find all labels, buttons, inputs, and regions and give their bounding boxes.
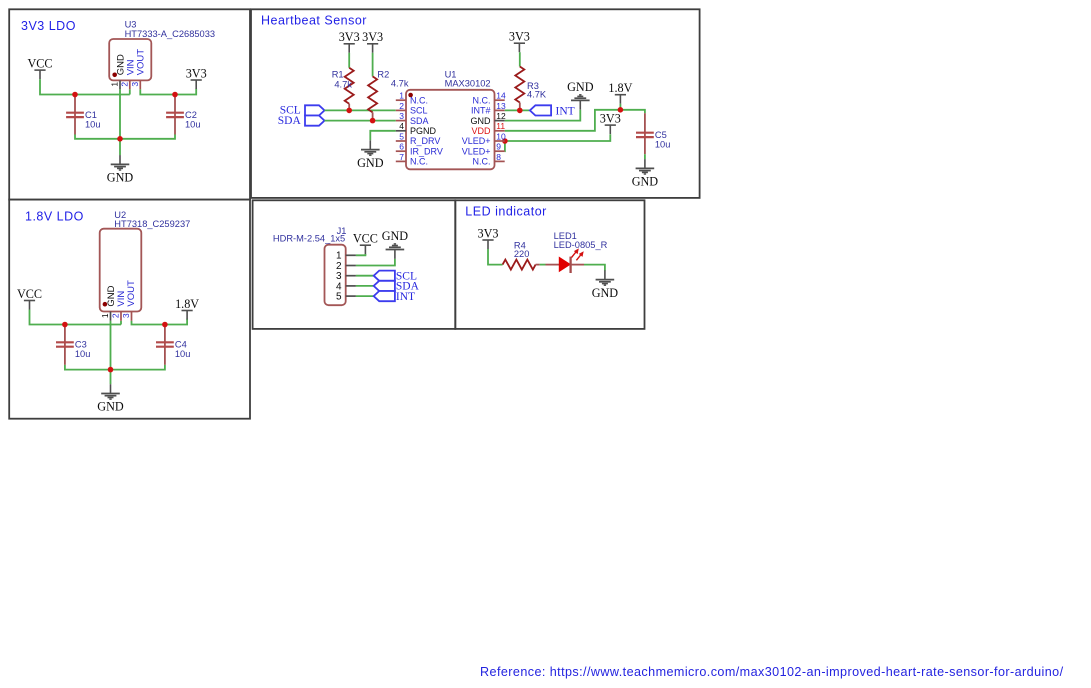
power flag 1.8V (heartbeat) [608,81,632,104]
svg-text:1.8V LDO: 1.8V LDO [25,209,84,223]
svg-text:1: 1 [399,91,404,101]
power flag VCC (3V3 LDO) [27,57,52,80]
junction R2/SDA [370,118,376,124]
sheet box LED indicator [455,200,644,329]
svg-text:10u: 10u [75,349,91,359]
svg-text:3V3: 3V3 [186,66,207,80]
svg-text:Reference: https://www.teachme: Reference: https://www.teachmemicro.com/… [480,665,1064,679]
svg-text:4: 4 [399,121,404,131]
svg-text:VCC: VCC [27,57,52,71]
svg-text:SDA: SDA [278,115,302,127]
wire VOUT to 3V3 bus [140,89,196,95]
IC U1 MAX30102 [406,70,495,170]
wire J1 pin1 to VCC [356,254,366,255]
svg-text:SCL: SCL [410,106,428,116]
svg-text:R_DRV: R_DRV [410,136,440,146]
power flag 3V3 (VLED) [600,112,621,135]
port SDA (J1) [374,281,420,293]
junction C1/VIN bus [72,92,78,98]
svg-text:HT7318_C259237: HT7318_C259237 [114,219,190,229]
wire VCC to VIN bus (1.8V LDO) [30,310,122,325]
U1 pin 1 stub + number [396,91,406,101]
U1 pin 7 stub + number [396,152,406,162]
ground GND (PGND) [357,140,384,170]
wire J1 pin5 to INT port [356,295,374,297]
wire VLED+ pins 9-10 tie [504,141,506,151]
U1 pin 2 stub + number [396,101,406,111]
U1 pin 13 stub + number [495,101,507,111]
svg-text:HT7333-A_C2685033: HT7333-A_C2685033 [125,29,215,39]
svg-text:3V3 LDO: 3V3 LDO [21,19,76,33]
svg-text:3V3: 3V3 [509,30,530,44]
wire R4 to LED [540,264,546,266]
power flag 3V3 (R1) [339,30,360,53]
capacitor C5 [636,113,670,154]
sheet box Heartbeat Sensor [251,9,700,198]
svg-text:3V3: 3V3 [339,30,360,44]
junction VLED+ pin10 [502,138,508,144]
J1 pin 5 stub [346,295,356,297]
connector J1 HDR-M-2.54_1x5 [273,226,347,305]
port SCL (input) [280,104,325,116]
power flag VCC (1.8V LDO) [17,287,42,310]
ground GND (1.8V LDO) [97,384,124,414]
wire C5 to ground [644,154,646,159]
svg-text:Heartbeat Sensor: Heartbeat Sensor [261,14,367,28]
junction GND bottom bus [117,136,123,142]
svg-text:10u: 10u [655,139,671,149]
wire C3 branch top [64,325,66,327]
capacitor C2 [166,97,200,135]
junction 1.8V/C5 [618,107,624,113]
svg-text:5: 5 [336,292,342,303]
wire PGND to ground [370,131,396,141]
wire 3V3 to R4 [488,249,503,265]
wire J1 pin4 to SDA port [356,285,374,287]
svg-text:10u: 10u [185,119,201,129]
U2 pin 1 stub + number [100,312,110,321]
svg-text:1: 1 [100,313,110,318]
svg-text:R1: R1 [332,69,344,79]
wire VOUT to 1.8V bus [132,319,188,325]
wire C1 branch top [74,95,76,97]
svg-text:1.8V: 1.8V [175,297,199,311]
ground GND (3V3 LDO) [107,155,134,185]
svg-text:6: 6 [399,142,404,152]
power flag 3V3 (R2) [362,30,383,53]
svg-text:11: 11 [496,121,505,131]
power flag VCC (J1) [353,232,378,255]
svg-text:N.C.: N.C. [410,157,428,167]
svg-text:INT: INT [396,291,415,303]
power flag 3V3 (R3) [509,30,530,53]
U1 pin 6 stub + number [396,142,406,152]
svg-text:3V3: 3V3 [362,30,383,44]
svg-text:GND: GND [632,175,659,189]
capacitor C3 [56,327,90,365]
svg-text:14: 14 [496,91,506,101]
svg-text:4.7K: 4.7K [527,90,547,100]
wire GND pin12 net [505,110,581,121]
wire 1.8V flag stub [619,104,621,110]
wire SDA net [325,120,396,122]
sheet box 3V3 LDO [9,9,250,199]
svg-text:3V3: 3V3 [600,112,621,126]
svg-text:GND: GND [567,80,594,94]
port INT (output) [530,105,575,117]
junction GND bottom bus (1.8V LDO) [108,367,114,373]
svg-text:GND: GND [357,156,384,170]
sheet box 1.8V LDO [9,200,250,419]
U3 pin 2 stub + number [119,80,129,89]
wire J1 pin2 to GND [356,259,395,266]
svg-text:VLED+: VLED+ [462,136,491,146]
svg-text:MAX30102: MAX30102 [445,79,491,89]
svg-text:3: 3 [130,82,140,87]
junction C4 bus [162,322,168,328]
svg-text:INT: INT [556,105,575,117]
power flag 1.8V (1.8V LDO) [175,297,199,320]
U1 pin 12 stub + number [495,111,507,121]
J1 pin 1 stub [346,254,356,256]
svg-text:2: 2 [119,82,129,87]
svg-text:10u: 10u [85,119,101,129]
svg-text:13: 13 [496,101,506,111]
svg-text:7: 7 [399,152,404,162]
U1 pin 9 stub + number [495,142,505,152]
LED LED1 [546,231,608,273]
U3 pin 3 stub + number [130,80,140,89]
U1 pin 10 stub + number [495,131,507,141]
U1 pin 4 stub + number [396,121,406,131]
svg-text:3V3: 3V3 [478,226,499,240]
wire C4 branch top [164,325,166,327]
svg-text:8: 8 [496,152,501,162]
J1 pin 4 stub [346,285,356,287]
wire GND pin1 vertical [119,89,121,139]
svg-text:1.8V: 1.8V [608,81,632,95]
U1 pin 14 stub + number [495,91,507,101]
svg-text:220: 220 [514,249,530,259]
resistor R2 4.7k [368,53,409,121]
svg-text:1: 1 [110,82,120,87]
wire U2 pin2 stub drop [120,321,122,325]
U1 pin 3 stub + number [396,111,406,121]
U3 pin 1 stub + number [110,80,120,89]
wire SCL net [325,109,396,111]
ground GND (J1, inverted) [382,229,409,259]
svg-text:VCC: VCC [353,232,378,246]
svg-text:4.7k: 4.7k [334,79,352,89]
J1 pin 3 stub [346,275,356,277]
wire VCC to VIN bus [40,79,130,94]
svg-text:GND: GND [97,400,124,414]
svg-text:5: 5 [399,131,404,141]
wire J1 pin3 to SCL port [356,275,374,277]
svg-text:LED indicator: LED indicator [465,205,547,219]
svg-text:9: 9 [496,142,501,152]
wire J1 VCC riser [364,254,366,255]
svg-text:4.7k: 4.7k [391,79,409,89]
ground GND (pin12, inverted) [567,80,594,110]
ground GND (LED) [592,270,619,300]
svg-text:3: 3 [399,111,404,121]
capacitor C4 [156,327,190,365]
svg-text:HDR-M-2.54_1x5: HDR-M-2.54_1x5 [273,233,345,243]
J1 pin 2 stub [346,265,356,267]
regulator U3 HT7333-A [109,20,215,81]
svg-text:VLED+: VLED+ [462,146,491,156]
svg-text:R2: R2 [377,69,389,79]
power flag 3V3 (3V3 LDO) [186,66,207,89]
svg-text:GND: GND [382,229,409,243]
junction R3/INT [517,108,523,114]
power flag 3V3 (LED) [478,226,499,249]
ground GND (C5) [632,159,659,189]
junction C3 bus [62,322,68,328]
svg-text:10: 10 [496,131,506,141]
capacitor C1 [66,97,100,135]
resistor R4 220 [503,240,540,269]
wire INT# net [505,109,530,111]
svg-text:VCC: VCC [17,287,42,301]
svg-text:2: 2 [111,313,121,318]
svg-text:VDD: VDD [471,126,491,136]
sheet box connector J1 [253,200,456,329]
svg-text:VOUT: VOUT [136,49,147,76]
svg-text:VOUT: VOUT [126,280,137,307]
svg-text:3: 3 [121,313,131,318]
svg-text:GND: GND [471,116,492,126]
wire C2 branch top [174,95,176,97]
U2 pin 3 stub + number [121,312,131,321]
svg-text:LED-0805_R: LED-0805_R [554,240,608,250]
wire pin2 VIN stub drop [129,89,131,94]
regulator U2 HT7318 [100,210,191,312]
svg-text:N.C.: N.C. [473,95,491,105]
svg-text:IR_DRV: IR_DRV [410,146,443,156]
svg-text:2: 2 [399,101,404,111]
svg-text:GND: GND [107,171,134,185]
resistor R3 4.7K [515,52,547,110]
junction R1/SCL [346,108,352,114]
junction C2/VOUT bus [172,92,178,98]
svg-text:GND: GND [592,286,619,300]
svg-text:SDA: SDA [410,116,429,126]
svg-text:10u: 10u [175,349,191,359]
U1 pin 8 stub + number [495,152,505,162]
U1 pin 5 stub + number [396,131,406,141]
svg-text:N.C.: N.C. [410,95,428,105]
port SCL (J1) [374,270,417,282]
wire LED to GND [584,265,605,271]
resistor R1 4.7k [332,53,354,111]
wire VLED+ to 3V3 [505,134,610,141]
svg-text:INT#: INT# [471,106,491,116]
wire bottom bus to GND (1.8V LDO) [65,365,165,384]
reference url text [480,665,1064,679]
svg-text:12: 12 [496,111,506,121]
port SDA (input) [278,115,325,127]
wire U2 GND pin1 vertical [110,321,112,370]
U1 pin 11 stub + number [495,121,506,131]
svg-text:PGND: PGND [410,126,437,136]
U2 pin 2 stub + number [111,312,121,321]
svg-text:N.C.: N.C. [473,157,491,167]
wire VDD to 1.8V [505,110,645,131]
wire bottom bus to GND [75,135,175,156]
port INT (J1) [374,291,415,303]
